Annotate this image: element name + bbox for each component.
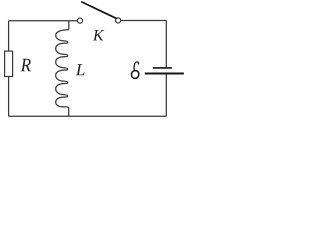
inductor L1 coil bbox=[56, 30, 69, 108]
wire left-lower (resistor to bottom-left corner) bbox=[8, 77, 10, 117]
wire right-upper (top-right corner down to battery) bbox=[165, 21, 167, 68]
switch K blade (open) bbox=[82, 2, 116, 18]
wire top-right (switch right terminal to top-right corner) bbox=[121, 20, 167, 22]
wire inductor top stub bbox=[68, 21, 70, 30]
resistor R1 box bbox=[5, 51, 13, 76]
switch K right terminal circle bbox=[116, 18, 121, 23]
battery E1 top plate (short) bbox=[153, 67, 172, 69]
wire left-upper (top-left corner down to resistor) bbox=[8, 21, 10, 51]
label K bbox=[93, 30, 104, 40]
wire top-left (top-left corner to switch left terminal) bbox=[9, 20, 78, 22]
wire bottom (bottom-left to bottom-right corner) bbox=[9, 115, 167, 117]
label R bbox=[21, 59, 31, 71]
label EMF script-E bowl bbox=[132, 71, 139, 79]
wire right-lower (battery to bottom-right corner) bbox=[165, 74, 167, 116]
label EMF script-E bbox=[134, 62, 139, 71]
wire inductor bottom stub bbox=[68, 108, 70, 116]
switch K left terminal circle bbox=[77, 18, 82, 23]
label L bbox=[76, 64, 85, 75]
battery E1 bottom plate (long) bbox=[145, 73, 184, 75]
